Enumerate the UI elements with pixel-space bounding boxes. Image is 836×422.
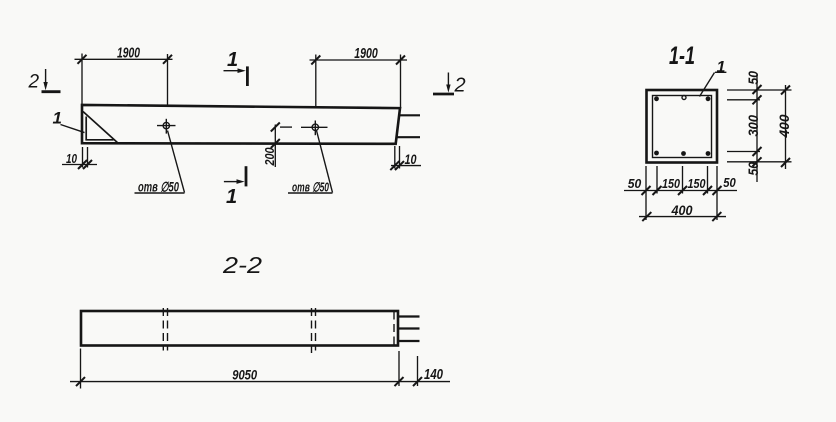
- svg-text:50: 50: [746, 71, 761, 85]
- dimension 400 (bottom): [639, 212, 726, 221]
- svg-text:1: 1: [226, 186, 237, 208]
- svg-text:2: 2: [28, 72, 40, 93]
- svg-text:50: 50: [746, 162, 761, 176]
- rebar top middle (open): [682, 96, 686, 100]
- svg-text:50: 50: [628, 176, 642, 191]
- section 2-2 beam rectangle: [81, 311, 398, 346]
- hidden hole lines pair 2 (dashed): [312, 308, 316, 353]
- extension lines right of section: [727, 90, 792, 162]
- svg-text:1: 1: [717, 59, 726, 76]
- svg-text:9050: 9050: [232, 367, 257, 383]
- section mark 2 (right): [433, 73, 466, 97]
- svg-text:50: 50: [723, 175, 736, 190]
- section mark 1 (top): [224, 49, 248, 86]
- section 1-1 stirrup (inner square): [653, 96, 712, 158]
- svg-text:2-2: 2-2: [222, 252, 262, 278]
- protruding bars (elevation right end): [396, 115, 420, 137]
- svg-text:1: 1: [53, 109, 62, 128]
- dimension 200 (vertical): [271, 123, 292, 168]
- hole 2 (circle with crosshair): [301, 121, 328, 136]
- hole 1 (circle with crosshair): [157, 119, 176, 134]
- svg-text:10: 10: [405, 152, 417, 167]
- extension lines below section: [646, 166, 717, 220]
- svg-text:1-1: 1-1: [669, 42, 695, 70]
- svg-text:300: 300: [746, 115, 761, 137]
- section mark 1 (bottom): [224, 166, 246, 208]
- section mark 2 (left): [28, 69, 61, 93]
- rebar dots: [654, 96, 710, 156]
- svg-text:200: 200: [262, 147, 277, 166]
- leader and label otv50 (hole 2): [288, 131, 333, 194]
- beam outline (elevation view): [82, 105, 400, 144]
- svg-text:отв ∅50: отв ∅50: [138, 180, 179, 195]
- leader to detail 1: [61, 125, 85, 133]
- hidden hole lines pair 1 (dashed): [163, 308, 167, 351]
- dimension 10 (right end): [390, 146, 421, 170]
- svg-text:отв ∅50: отв ∅50: [292, 180, 330, 195]
- svg-text:10: 10: [66, 152, 77, 166]
- hidden line at right end (dashed): [393, 312, 395, 347]
- dimension 10 (left end): [62, 147, 97, 169]
- svg-text:140: 140: [424, 366, 443, 383]
- svg-text:150: 150: [662, 176, 681, 191]
- svg-text:400: 400: [777, 114, 792, 139]
- section 1-1 outer square: [647, 90, 718, 163]
- leader and label otv50 (hole 1): [135, 131, 185, 194]
- svg-text:2: 2: [454, 75, 466, 97]
- corner plate detail 1 (triangle at left end): [83, 112, 118, 143]
- svg-text:1900: 1900: [354, 45, 378, 62]
- protruding bars (section 2-2): [399, 317, 420, 342]
- svg-text:1: 1: [227, 49, 238, 71]
- svg-text:400: 400: [671, 203, 693, 218]
- svg-text:150: 150: [688, 176, 707, 191]
- dimension 400 (right outer): [781, 85, 790, 169]
- svg-text:1900: 1900: [117, 45, 140, 62]
- dimension chain 50-150-150-50 (bottom): [624, 186, 737, 195]
- leader and label 1 (section 1-1): [700, 72, 727, 96]
- dimension 1900 left: [75, 54, 173, 106]
- dimension chain 50-300-50 (right inner): [753, 74, 762, 183]
- dimension 9050 / 140 (bottom): [70, 349, 450, 389]
- dimension 1900 right: [310, 55, 408, 108]
